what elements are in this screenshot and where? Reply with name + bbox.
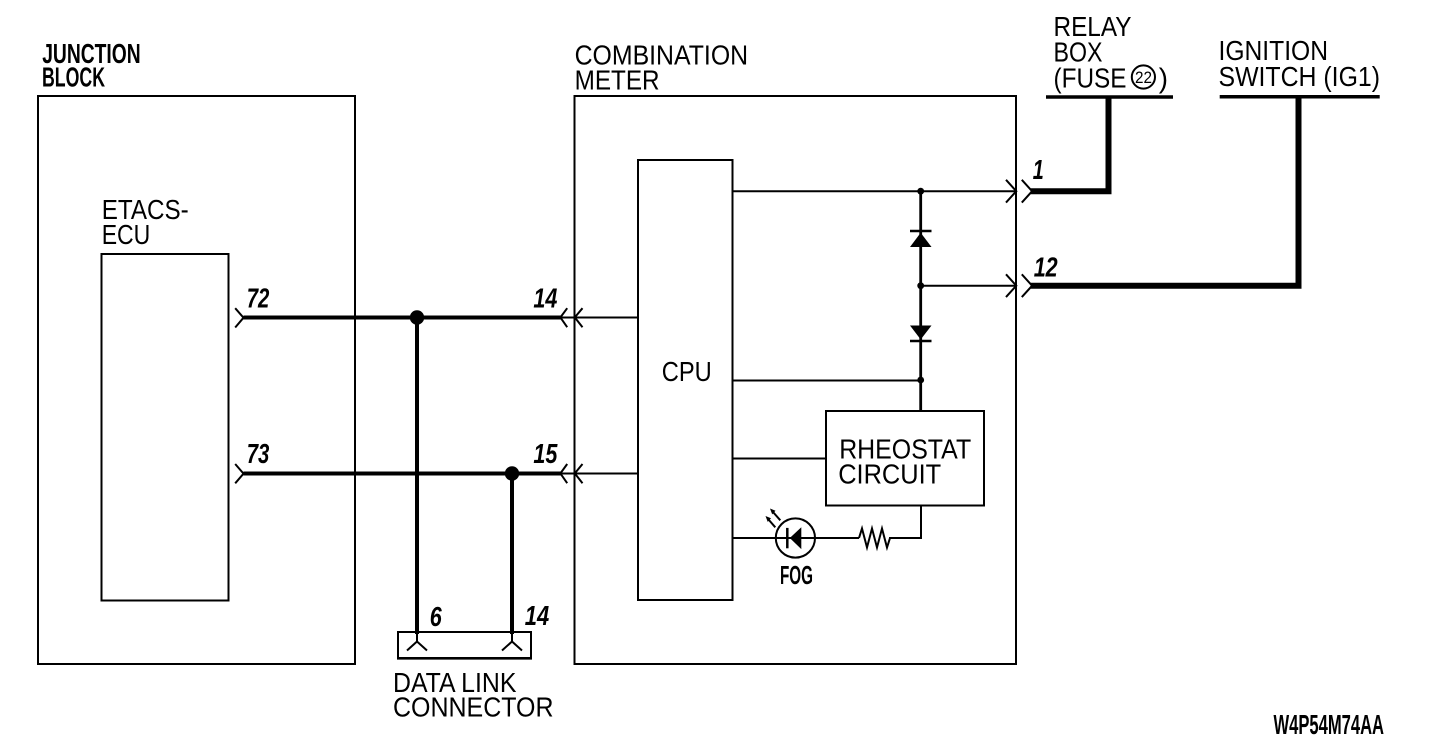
LED triangle	[790, 527, 802, 549]
svg-text:73: 73	[247, 438, 270, 469]
combination meter box	[575, 96, 1017, 664]
svg-text:ECU: ECU	[102, 219, 151, 250]
data link pin 14 fork	[502, 632, 522, 651]
wire CPU to diode stack	[733, 380, 921, 382]
svg-text:72: 72	[247, 283, 270, 314]
svg-text:1: 1	[1033, 154, 1044, 185]
junction block label	[42, 38, 141, 93]
relay box terminal bar	[1046, 95, 1173, 99]
junction node row12	[917, 282, 924, 289]
pin 72 arrow	[235, 308, 243, 327]
wire row 73 thick	[244, 472, 561, 476]
wire row 1 thin (CPU to edge)	[733, 190, 1017, 192]
junction node row1	[917, 188, 924, 195]
wire CPU to rheostat circuit	[733, 458, 827, 460]
junction node B	[505, 466, 519, 480]
svg-text:15: 15	[533, 438, 557, 469]
LED emission arrow 1	[770, 509, 780, 521]
ignition switch label	[1219, 35, 1381, 92]
wire row 15 thin into CPU	[561, 473, 639, 475]
svg-text:SWITCH (IG1): SWITCH (IG1)	[1219, 61, 1381, 92]
pin 15 double arrow	[560, 464, 582, 483]
svg-text:CONNECTOR: CONNECTOR	[393, 692, 554, 723]
fuse 22 circle	[1132, 65, 1155, 88]
svg-text:(FUSE: (FUSE	[1054, 63, 1127, 94]
svg-text:METER: METER	[575, 65, 660, 96]
data link connector box	[398, 632, 531, 658]
CPU U1 box	[638, 160, 733, 600]
LED cathode bar	[786, 528, 789, 548]
ignition switch terminal bar	[1220, 95, 1380, 99]
rheostat circuit box	[826, 411, 984, 506]
ETACS-ECU label	[102, 194, 189, 250]
diode D1 (up)	[910, 231, 932, 247]
rheostat circuit label	[838, 434, 971, 490]
wire resistor to rheostat	[889, 506, 921, 539]
relay box label	[1054, 11, 1169, 94]
data link pin 6 fork	[407, 632, 427, 651]
svg-text:FOG: FOG	[780, 560, 813, 590]
pin 1 double arrow	[1006, 180, 1032, 203]
svg-text:BLOCK: BLOCK	[42, 62, 105, 93]
svg-text:): )	[1159, 63, 1168, 94]
ETACS-ECU box	[102, 254, 229, 601]
wire row 72 thick	[244, 316, 561, 320]
svg-text:6: 6	[430, 601, 442, 632]
pin 73 arrow	[235, 464, 243, 483]
LED emission arrow 2	[766, 516, 776, 527]
junction block box	[38, 96, 355, 664]
diode stack vertical wire	[919, 191, 922, 411]
svg-text:12: 12	[1034, 251, 1058, 282]
svg-text:14: 14	[525, 600, 550, 631]
feed wire to relay box	[1031, 97, 1109, 191]
svg-text:CPU: CPU	[662, 356, 712, 387]
wire CPU to LED row	[733, 537, 860, 539]
svg-text:22: 22	[1135, 68, 1152, 87]
junction node CPU row	[917, 377, 924, 384]
LED FOG circle	[776, 518, 815, 557]
pin 14 double arrow	[560, 308, 582, 327]
svg-text:14: 14	[533, 283, 557, 314]
wire row 14 thin into CPU	[561, 317, 639, 319]
junction node A	[410, 310, 424, 324]
feed wire to ignition switch	[1031, 97, 1299, 286]
data link connector label	[393, 667, 554, 723]
resistor R1 zigzag	[859, 529, 890, 548]
vertical wire A to data link	[415, 318, 419, 635]
pin 12 double arrow	[1006, 274, 1032, 297]
wire row 12 thin	[921, 285, 1016, 287]
combination meter label	[575, 40, 749, 96]
diode D2 (down)	[910, 326, 932, 342]
svg-text:CIRCUIT: CIRCUIT	[838, 458, 941, 489]
svg-text:W4P54M74AA: W4P54M74AA	[1274, 709, 1385, 740]
vertical wire B to data link	[510, 474, 514, 635]
